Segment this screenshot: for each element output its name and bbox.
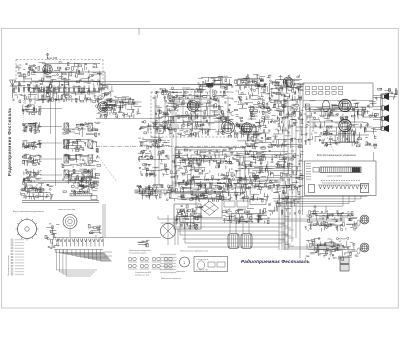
- svg-text:Вид на переключатель диапазоно: Вид на переключатель диапазонов: [13, 211, 44, 213]
- svg-text:синяя панель снизу: синяя панель снизу: [58, 209, 75, 211]
- svg-text:шкала настройки: шкала настройки: [327, 175, 342, 178]
- svg-text:относительно шасси: относительно шасси: [129, 253, 146, 255]
- svg-text:Номинальные напряжения: Номинальные напряжения: [161, 278, 181, 280]
- svg-text:Радиоприемник Фестиваль: Радиоприемник Фестиваль: [7, 107, 12, 176]
- svg-text:измерены от цепи: измерены от цепи: [135, 275, 149, 277]
- svg-text:+ а б в г д е ж: + а б в г д е ж: [196, 259, 209, 261]
- svg-text:1: 1: [183, 261, 185, 265]
- svg-text:переключат.: переключат.: [176, 271, 186, 273]
- svg-text:1 2 3 4 5 6 7 8 9: 1 2 3 4 5 6 7 8 9: [196, 270, 208, 272]
- svg-text:Блок дистанционного управления: Блок дистанционного управления: [317, 154, 356, 157]
- svg-text:Кнопки фиксированных настроек: Кнопки фиксированных настроек: [322, 182, 350, 185]
- svg-text:Положения ручек указаны: Положения ручек указаны: [8, 255, 10, 276]
- svg-text:Блок УКВ: Блок УКВ: [47, 58, 58, 60]
- svg-text:Радиоприемник Фестиваль: Радиоприемник Фестиваль: [241, 259, 310, 264]
- svg-text:Переключатель напряжения сети: Переключатель напряжения сети: [180, 251, 208, 253]
